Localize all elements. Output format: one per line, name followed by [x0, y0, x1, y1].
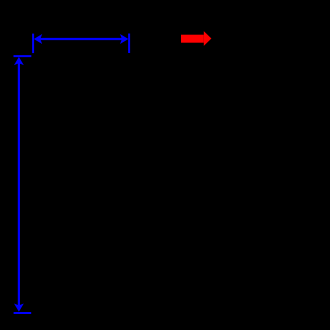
horizontal dimension left extension tick — [32, 34, 34, 54]
vertical dimension bottom arrowhead — [14, 304, 24, 312]
red force arrow shaft — [181, 35, 204, 43]
horizontal dimension right extension tick — [128, 34, 130, 54]
vertical dimension top arrowhead — [14, 57, 24, 65]
red force arrow head — [204, 31, 212, 46]
horizontal dimension right arrowhead — [120, 34, 128, 44]
horizontal dimension line (blue, top) — [39, 38, 123, 40]
vertical dimension top extension tick — [14, 55, 32, 57]
vertical dimension bottom extension tick — [14, 312, 32, 314]
vertical dimension line (blue, left) — [18, 62, 20, 306]
horizontal dimension left arrowhead — [34, 34, 42, 44]
